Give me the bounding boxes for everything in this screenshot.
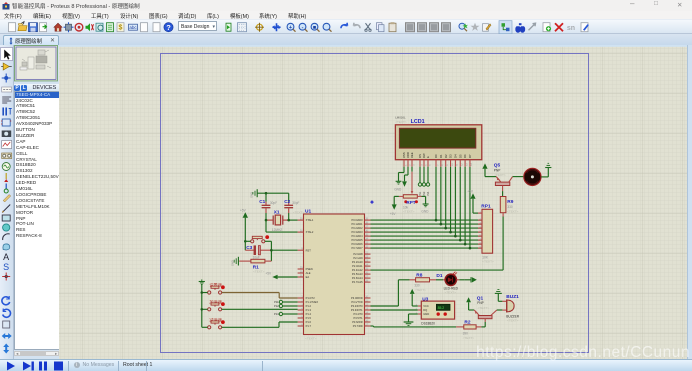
svg-text:A: A (3, 252, 9, 262)
svg-text:<TEXT>: <TEXT> (478, 305, 490, 309)
+5V power (U3) (410, 288, 415, 293)
svg-text:RPT: RPT (406, 199, 415, 204)
svg-text:P2.6/A14: P2.6/A14 (352, 276, 363, 280)
ground (buttons) (199, 279, 205, 284)
svg-text:?: ? (166, 23, 171, 32)
resistor R9 (500, 196, 518, 216)
svg-text:-: - (302, 24, 304, 30)
svg-text:D2: D2 (444, 153, 448, 157)
svg-text:P0.6/AD6: P0.6/AD6 (351, 242, 363, 246)
svg-text:P2.3/A11: P2.3/A11 (352, 264, 363, 268)
wire Q1 base to R2 (481, 321, 485, 326)
svg-text:P0.0/AD0: P0.0/AD0 (351, 218, 363, 222)
terminal P11 (LCD side) (418, 166, 422, 195)
ground (buzzer) (495, 289, 502, 301)
svg-text:<TEXT>: <TEXT> (494, 173, 506, 177)
svg-text:XTAL1: XTAL1 (306, 218, 314, 222)
svg-text:E: E (426, 156, 430, 158)
svg-text:P1.3: P1.3 (306, 308, 312, 312)
svg-text:+5V: +5V (390, 211, 397, 215)
svg-text:30pF: 30pF (292, 201, 299, 205)
svg-text:P2.4/A12: P2.4/A12 (352, 268, 363, 272)
ground (motor) (545, 163, 551, 167)
svg-text:P1.4: P1.4 (306, 312, 312, 316)
node RST (270, 248, 273, 251)
svg-text:D1: D1 (439, 153, 443, 157)
ground (R1) (230, 256, 238, 265)
svg-text:P3.5/T1: P3.5/T1 (354, 316, 364, 320)
wires LCD D0-D7 to P0 bus (staircase) (435, 166, 472, 249)
svg-text:BUZ1: BUZ1 (506, 294, 519, 300)
svg-text:PNP: PNP (494, 168, 501, 172)
svg-text:D6: D6 (463, 153, 467, 157)
capacitor C1 (259, 193, 277, 220)
svg-text:D4: D4 (454, 153, 458, 157)
svg-text:<TEXT>: <TEXT> (414, 287, 426, 291)
potentiometer RPT (contrast) (399, 194, 422, 213)
node X1 right (287, 218, 290, 221)
toolbar (0, 19, 692, 34)
svg-text:GND: GND (421, 209, 429, 213)
svg-text:P14: P14 (427, 190, 430, 195)
svg-text:P1.5: P1.5 (306, 316, 312, 320)
node C1 top (265, 191, 268, 194)
svg-text:P3.6/WR: P3.6/WR (352, 320, 363, 324)
buzzer BUZ1 (502, 294, 519, 322)
wire buzzer top pin (498, 300, 502, 302)
svg-text:R2: R2 (464, 319, 470, 325)
+5V terminal (EA) (265, 271, 297, 279)
origin marker (blue) (370, 200, 374, 204)
svg-text:GND: GND (250, 191, 254, 197)
svg-text:P3.4/T0: P3.4/T0 (354, 312, 364, 316)
svg-text:P2.5/A13: P2.5/A13 (352, 272, 363, 276)
svg-text:C2: C2 (284, 198, 290, 203)
node reset top (244, 240, 247, 243)
svg-text:abc: abc (129, 25, 137, 30)
svg-text:C3: C3 (246, 245, 252, 250)
svg-text:P12: P12 (423, 190, 426, 195)
svg-text:<TEXT>: <TEXT> (403, 209, 415, 213)
svg-text:P0.1/AD1: P0.1/AD1 (351, 222, 363, 226)
svg-text:GND: GND (423, 312, 429, 316)
wire VSS to gnd (399, 166, 405, 180)
svg-text:P1.1/T2EX: P1.1/T2EX (306, 300, 319, 304)
wire XTAL1 (289, 219, 298, 221)
horizontal scrollbar of list (14, 351, 59, 356)
push button (&#35774;&#32622;&#38190;) (202, 281, 225, 294)
wire VEE to pot wiper (411, 166, 414, 193)
svg-text:P2.7/A15: P2.7/A15 (352, 280, 363, 284)
wire pot right to gnd (422, 196, 426, 203)
sheet border frame (161, 53, 589, 352)
svg-text:■: ■ (313, 24, 316, 30)
svg-text:P3.1/TXD: P3.1/TXD (351, 300, 362, 304)
svg-text:P1.0/T2: P1.0/T2 (306, 296, 316, 300)
terminal P14 (LCD side) (426, 166, 430, 195)
status bar (0, 359, 692, 371)
svg-text:X1: X1 (274, 209, 280, 214)
svg-text:+5V: +5V (265, 271, 272, 275)
svg-text:P3.0/RXD: P3.0/RXD (351, 296, 363, 300)
svg-text:P2.2/A10: P2.2/A10 (352, 260, 363, 264)
svg-text:P1.7: P1.7 (306, 324, 312, 328)
svg-text:S: S (3, 262, 9, 272)
title bar (0, 0, 692, 11)
svg-text:GND: GND (394, 187, 402, 191)
LED D1 (LED-RED) (436, 271, 464, 294)
svg-text:P11: P11 (274, 300, 279, 304)
node button2 bus (201, 308, 204, 311)
svg-text:XTAL2: XTAL2 (306, 230, 314, 234)
svg-text:RP1: RP1 (481, 203, 491, 209)
svg-text:LM016L: LM016L (395, 115, 406, 119)
svg-text:P2.1/A9: P2.1/A9 (353, 256, 363, 260)
svg-text:<TEXT>: <TEXT> (422, 325, 434, 329)
microcontroller U1 AT89C51 (298, 208, 371, 340)
svg-text:sn: sn (567, 25, 575, 32)
wire Q5 collector to motor (513, 175, 524, 177)
svg-text:30pF: 30pF (270, 201, 277, 205)
wires P0.0-P0.7 bus to RP1 (371, 220, 483, 248)
terminal P12 (U1 side) (274, 304, 298, 308)
wire pot left to +5V (394, 196, 399, 204)
svg-text:GND: GND (230, 260, 234, 266)
temperature sensor U3 (DS18B20) (416, 296, 455, 329)
svg-text:P0.7/AD7: P0.7/AD7 (351, 246, 363, 250)
svg-text:PNP: PNP (477, 301, 484, 305)
wire Q1 collector to buzzer (497, 309, 503, 311)
wire motor to gnd (541, 167, 548, 176)
svg-text:P0.5/AD5: P0.5/AD5 (351, 238, 363, 242)
ground (LCD VSS) (394, 181, 402, 191)
svg-text:P3.2/INT0: P3.2/INT0 (351, 304, 363, 308)
svg-text:D1: D1 (436, 273, 442, 279)
wire XTAL2 (266, 220, 298, 232)
watermark (0, 344, 690, 362)
terminal arrow (D1 output) (471, 277, 477, 282)
capacitor C3 (245, 241, 271, 259)
svg-text:12MHZ: 12MHZ (272, 227, 283, 231)
svg-text:RST: RST (306, 248, 312, 252)
svg-text:<TEXT>: <TEXT> (507, 318, 519, 322)
+5V power (RP1) (467, 189, 478, 212)
svg-text:P12: P12 (274, 304, 279, 308)
wire D1 to terminal (464, 278, 471, 280)
svg-text:<TEXT>: <TEXT> (293, 210, 305, 214)
left icon column (0, 45, 14, 359)
wire button2 to P1.3 (222, 308, 298, 310)
wire gnd rail to C1/C2 (257, 192, 289, 194)
+5V power (Q5 emitter) (482, 163, 496, 176)
wire P3.3 to U3 DQ (371, 309, 418, 311)
wire Q5 base to R9 (502, 191, 504, 196)
svg-text:VEE: VEE (410, 152, 414, 158)
svg-text:P0.4/AD4: P0.4/AD4 (351, 234, 363, 238)
svg-text:<TEXT>: <TEXT> (305, 336, 317, 340)
push button (&#21152;&#36895;&#38190;) (202, 298, 225, 311)
LCD display LCD1 (LM016L) (395, 115, 482, 166)
svg-text:$: $ (119, 24, 123, 31)
menu bar (0, 11, 692, 19)
wire button3 to P1.6 (222, 322, 298, 327)
svg-text:D3: D3 (449, 153, 453, 157)
svg-text:D7: D7 (468, 153, 472, 157)
svg-text:330: 330 (507, 204, 513, 208)
svg-text:P2.0/A8: P2.0/A8 (353, 252, 363, 256)
wire P3.2 to R8 (371, 279, 410, 305)
svg-text:R8: R8 (416, 272, 422, 278)
wire VDD to +5V (405, 166, 409, 181)
svg-text:P1.2: P1.2 (306, 304, 312, 308)
transistor Q1 (PNP) (474, 295, 497, 322)
svg-text:<TEXT>: <TEXT> (445, 290, 457, 294)
tab bar (0, 34, 692, 45)
svg-text:P0.3/AD3: P0.3/AD3 (351, 230, 363, 234)
svg-text:DQ: DQ (423, 308, 427, 312)
svg-text:D5: D5 (458, 153, 462, 157)
svg-text:P3.7/RD: P3.7/RD (353, 324, 363, 328)
svg-text:EA: EA (306, 275, 310, 279)
wire RST (271, 249, 297, 251)
ground (U3) (404, 322, 414, 325)
schematic canvas (59, 45, 687, 359)
svg-text:+: + (289, 24, 292, 30)
push button (&#20943;&#36895;&#38190;) (202, 316, 225, 329)
wire button1 to P1.0 (highlighted) (222, 292, 298, 298)
svg-text:85.2: 85.2 (438, 306, 445, 310)
svg-text:P0.2/AD2: P0.2/AD2 (351, 226, 363, 230)
terminal P12 (LCD side) (422, 166, 426, 195)
svg-text:ALE: ALE (306, 271, 311, 275)
svg-text:PSEN: PSEN (306, 267, 313, 271)
svg-text:<TEXT>: <TEXT> (395, 120, 407, 124)
wire reset right vertical (270, 241, 272, 261)
wire U3 GND to gnd (409, 314, 418, 322)
right window edge strip (687, 45, 692, 359)
terminal P14 (U1 side) (274, 312, 298, 316)
svg-text:<TEXT>: <TEXT> (463, 335, 475, 339)
wire P3.7 to R2 (371, 325, 457, 328)
reset button (245, 235, 271, 243)
+5V power (reset) (240, 208, 248, 241)
svg-text:U1: U1 (305, 208, 311, 214)
svg-text:<TEXT>: <TEXT> (253, 269, 265, 273)
svg-text:<TEXT>: <TEXT> (482, 259, 494, 263)
ground (crystal rail) (250, 189, 258, 198)
resistor pack RP1 (RESPACK-8) (478, 203, 494, 263)
terminal P11 (U1 side) (274, 300, 297, 304)
svg-text:VCC: VCC (423, 304, 429, 308)
resistor R8 (410, 272, 436, 291)
node X1 left (265, 218, 268, 221)
motor (fan) (524, 168, 541, 185)
+5V power (pot, down arrow) (390, 204, 397, 216)
svg-text:D0: D0 (434, 153, 438, 157)
svg-text:+5V: +5V (240, 208, 247, 212)
svg-text:C1: C1 (259, 198, 265, 203)
svg-text:P1.6: P1.6 (306, 320, 312, 324)
crystal X1 (266, 209, 305, 231)
object selector panel (14, 45, 60, 359)
+5V power (LCD VDD, down arrow) (402, 181, 407, 186)
svg-text:P11: P11 (419, 191, 422, 196)
+5V power (Q1 emitter) (466, 297, 474, 310)
svg-text:+5V: +5V (467, 189, 474, 193)
resistor R2 (456, 319, 481, 339)
capacitor C2 (284, 193, 299, 220)
svg-text:P14: P14 (274, 312, 279, 316)
wire R9 to P2.4 (371, 216, 504, 270)
ground (pot) (421, 204, 429, 213)
svg-text:P3.3/INT1: P3.3/INT1 (351, 308, 363, 312)
node button1 bus (201, 291, 204, 294)
transistor Q5 (PNP) (494, 162, 513, 191)
svg-text:<TEXT>: <TEXT> (507, 209, 519, 213)
wire U3 VCC to +5V (412, 294, 418, 306)
resistor R1 (239, 259, 271, 273)
wire button ground bus (201, 284, 203, 327)
